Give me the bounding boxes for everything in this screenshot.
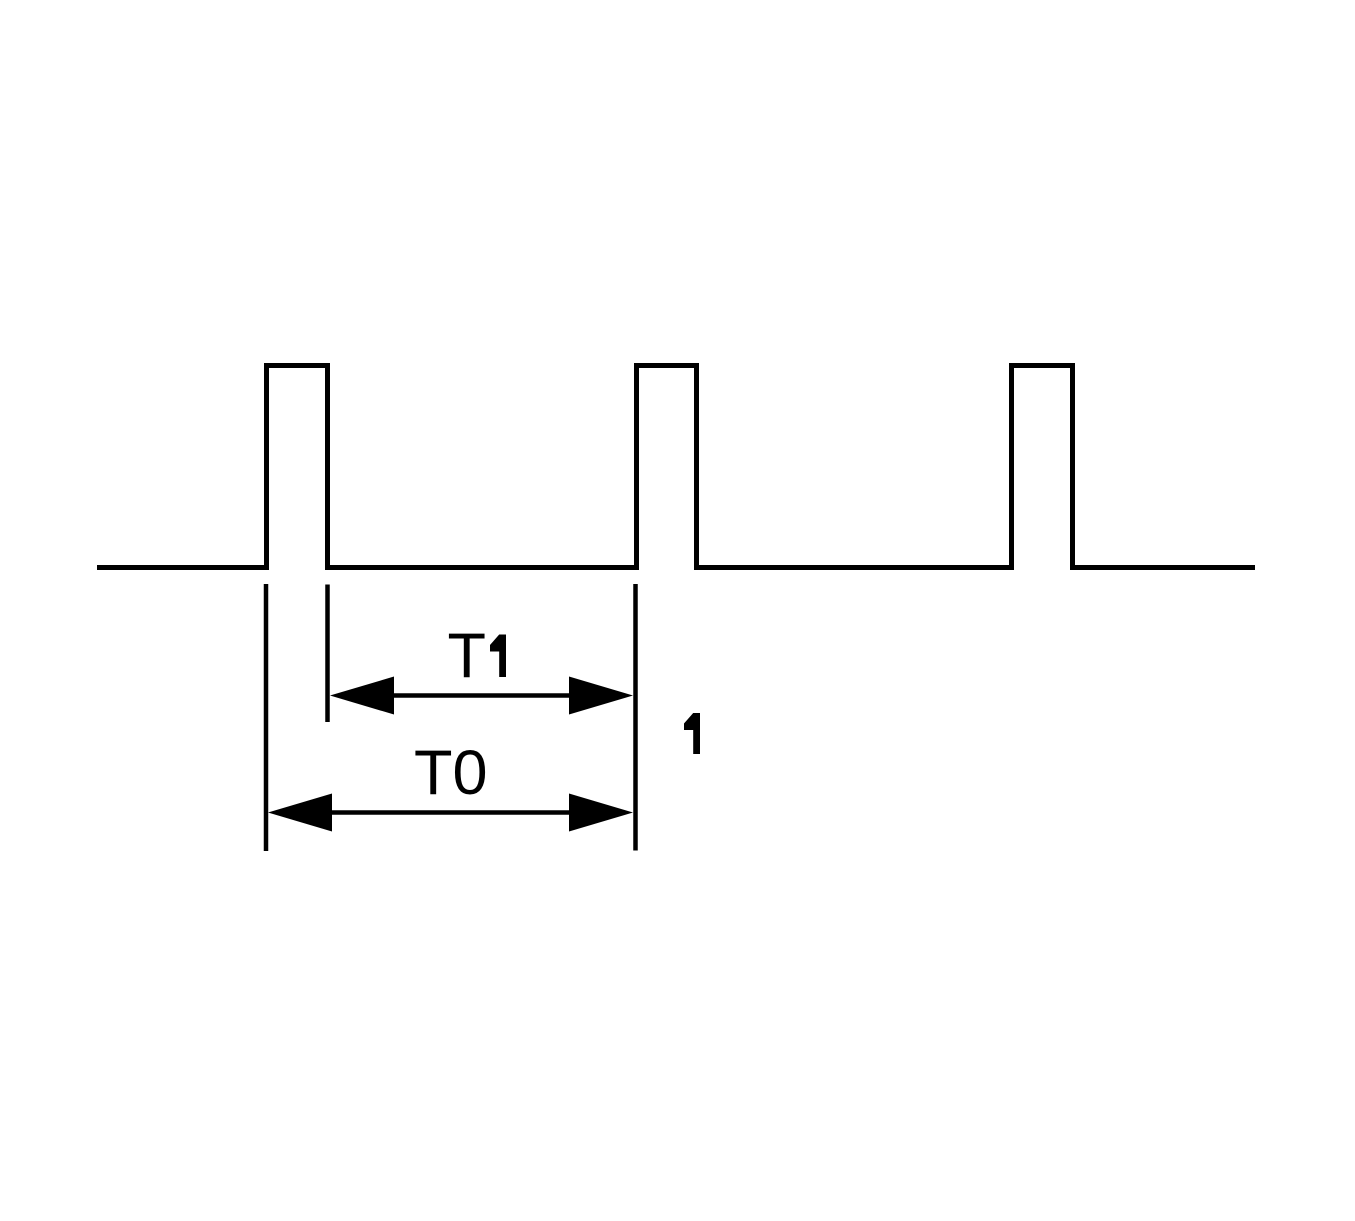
pulse waveform trace — [97, 366, 1255, 568]
label 1 — [684, 713, 700, 754]
T0 dimension arrow (double-headed) — [268, 794, 633, 832]
tick C (below pulse 2 rising edge, long) — [633, 584, 638, 851]
tick A (below pulse 1 rising edge, long) — [264, 584, 269, 851]
T1 dimension arrow (double-headed) — [330, 677, 633, 715]
svg-text:T0: T0 — [414, 738, 488, 808]
tick B (below pulse 1 falling edge, short) — [325, 585, 330, 723]
svg-text:T: T — [448, 621, 486, 691]
